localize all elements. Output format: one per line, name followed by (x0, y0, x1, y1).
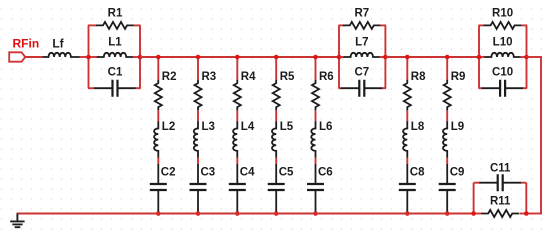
wire R9 to L9 (446, 110, 448, 121)
node C3 bottom (196, 211, 201, 216)
wire R5 to L5 (275, 110, 277, 121)
node C4 bottom (235, 211, 240, 216)
wire stub left of C11 (474, 182, 480, 184)
ground (10, 214, 24, 228)
svg-text:R1: R1 (108, 7, 123, 19)
wire Lf to node (80, 56, 89, 58)
wire L9 to C9 (446, 158, 448, 165)
node at R7 block right (383, 55, 388, 60)
inductor L1 (97, 53, 133, 57)
node at R10 block right (524, 55, 529, 60)
wire R8 to L8 (406, 110, 408, 121)
resistor R6 (312, 80, 319, 111)
svg-text:L9: L9 (451, 121, 464, 133)
wire L3 to C3 (197, 158, 199, 165)
inductor L5 (272, 121, 276, 157)
wire stub left of R7 (338, 24, 343, 26)
wire stub right of R7 (380, 24, 386, 26)
wire right edge vertical (540, 56, 542, 214)
wire bottom rail right of R11 (526, 213, 542, 215)
wire C11 block left vertical (473, 183, 475, 214)
node R9 top (445, 55, 450, 60)
resistor R7 (343, 22, 381, 29)
wire rail to R4 (236, 57, 238, 80)
wire R7 block right vertical (384, 25, 386, 88)
svg-text:R7: R7 (354, 7, 369, 19)
svg-text:L8: L8 (411, 121, 425, 133)
wire port to Lf (25, 56, 42, 58)
node C8 bottom (405, 211, 410, 216)
inductor L4 (233, 121, 237, 157)
svg-text:C10: C10 (492, 67, 513, 79)
wire R10 block left vertical (478, 25, 480, 88)
svg-text:R2: R2 (162, 71, 177, 83)
svg-text:RFin: RFin (13, 37, 40, 51)
inductor L9 (443, 121, 447, 157)
svg-text:R11: R11 (490, 195, 511, 207)
capacitor C4 (236, 164, 238, 213)
wire rail to R3 (197, 57, 199, 80)
svg-text:R9: R9 (451, 71, 466, 83)
node R8 top (405, 55, 410, 60)
node C5 bottom (274, 211, 279, 216)
node C2 bottom (156, 211, 161, 216)
node at R7 block left (337, 55, 342, 60)
wire stub right of C1 (136, 87, 141, 89)
svg-text:C11: C11 (490, 162, 511, 174)
node R11 right (524, 211, 529, 216)
svg-text:C6: C6 (318, 166, 333, 178)
wire rail to R8 (406, 57, 408, 80)
svg-text:L7: L7 (355, 37, 368, 49)
svg-text:L10: L10 (493, 37, 513, 49)
svg-text:R8: R8 (411, 71, 426, 83)
wire R2 to L2 (157, 110, 159, 121)
svg-text:C9: C9 (450, 166, 465, 178)
svg-text:C5: C5 (279, 166, 294, 178)
wire bottom rail (17, 213, 474, 215)
resistor R11 (481, 210, 519, 217)
svg-text:R4: R4 (241, 71, 256, 83)
wire R10 block right vertical (526, 25, 528, 88)
wire main rail block7 to block10 (385, 56, 479, 58)
wire L4 to C4 (236, 158, 238, 165)
inductor L7 (344, 53, 380, 57)
svg-text:Lf: Lf (52, 37, 64, 51)
wire stub right of R11 (520, 213, 527, 215)
wire stub left of L10 (478, 56, 485, 58)
svg-text:C2: C2 (161, 166, 176, 178)
node R2 top (156, 55, 161, 60)
wire rail to right edge (527, 56, 542, 58)
node at R1 block right (138, 55, 143, 60)
svg-text:L5: L5 (280, 121, 294, 133)
node R4 top (235, 55, 240, 60)
wire C11 block right vertical (525, 183, 527, 214)
resistor R3 (195, 80, 202, 111)
wire rail to R5 (275, 57, 277, 80)
capacitor C6 (315, 164, 317, 213)
port RFin (9, 52, 25, 61)
svg-text:C3: C3 (201, 166, 216, 178)
inductor L10 (484, 53, 520, 57)
node R6 top (313, 55, 318, 60)
capacitor C3 (197, 164, 199, 213)
wire rail to R2 (157, 57, 159, 80)
capacitor C10 (482, 87, 524, 89)
wire rail to R6 (315, 57, 317, 80)
resistor R2 (155, 80, 162, 111)
wire stub right of L10 (520, 56, 527, 58)
capacitor C1 (94, 87, 136, 89)
wire L5 to C5 (275, 158, 277, 165)
resistor R10 (484, 22, 522, 29)
wire R6 to L6 (315, 110, 317, 121)
svg-text:R6: R6 (319, 71, 334, 83)
svg-text:C4: C4 (240, 166, 255, 178)
resistor R4 (234, 80, 241, 111)
wire stub left of C10 (478, 87, 482, 89)
node C9 bottom (445, 211, 450, 216)
wire stub left of L7 (338, 56, 344, 58)
svg-text:L3: L3 (202, 121, 215, 133)
capacitor C9 (446, 164, 448, 213)
wire stub left of C7 (338, 87, 341, 89)
resistor R9 (444, 80, 451, 111)
wire R7 block left vertical (338, 25, 340, 88)
wire stub right of L1 (133, 56, 141, 58)
capacitor C5 (275, 164, 277, 213)
wire stub left of L1 (88, 56, 97, 58)
svg-text:L2: L2 (162, 121, 175, 133)
wire stub left of R10 (478, 24, 484, 26)
wire R3 to L3 (197, 110, 199, 121)
inductor L6 (311, 121, 315, 157)
node R11 left (471, 211, 476, 216)
wire stub left of R11 (474, 213, 482, 215)
svg-text:L4: L4 (241, 121, 255, 133)
wire stub right of L7 (380, 56, 387, 58)
svg-text:L1: L1 (108, 37, 122, 49)
wire stub left of C1 (88, 87, 95, 89)
wire stub right of R10 (521, 24, 527, 26)
wire main rail block1 to block7 (140, 56, 339, 58)
wire R1 block left vertical (88, 25, 90, 88)
wire rail to R9 (446, 57, 448, 80)
capacitor C8 (406, 164, 408, 213)
wire L2 to C2 (157, 158, 159, 165)
node at R1 block left (86, 55, 91, 60)
wire stub left of R1 (88, 24, 97, 26)
capacitor C7 (341, 87, 383, 89)
svg-text:C7: C7 (354, 67, 369, 79)
wire stub right of C11 (521, 182, 526, 184)
inductor L2 (154, 121, 158, 157)
node R3 top (196, 55, 201, 60)
resistor R5 (273, 80, 280, 111)
resistor R8 (404, 80, 411, 111)
wire stub right of C10 (523, 87, 527, 89)
resistor R1 (96, 22, 134, 29)
wire stub right of R1 (134, 24, 141, 26)
inductor L8 (403, 121, 407, 157)
capacitor C2 (157, 164, 159, 213)
node C6 bottom (313, 211, 318, 216)
node R5 top (274, 55, 279, 60)
capacitor C11 (479, 182, 521, 184)
svg-text:R5: R5 (280, 71, 295, 83)
svg-text:C1: C1 (108, 67, 123, 79)
wire stub right of C7 (382, 87, 386, 89)
svg-text:L6: L6 (319, 121, 332, 133)
wire L6 to C6 (315, 158, 317, 165)
node at R10 block left (477, 55, 482, 60)
wire L8 to C8 (406, 158, 408, 165)
wire R4 to L4 (236, 110, 238, 121)
inductor L3 (194, 121, 198, 157)
inductor Lf (43, 53, 80, 57)
svg-text:R10: R10 (492, 7, 513, 19)
svg-text:R3: R3 (202, 71, 217, 83)
wire R1 block right vertical (139, 25, 141, 88)
svg-text:C8: C8 (410, 166, 425, 178)
